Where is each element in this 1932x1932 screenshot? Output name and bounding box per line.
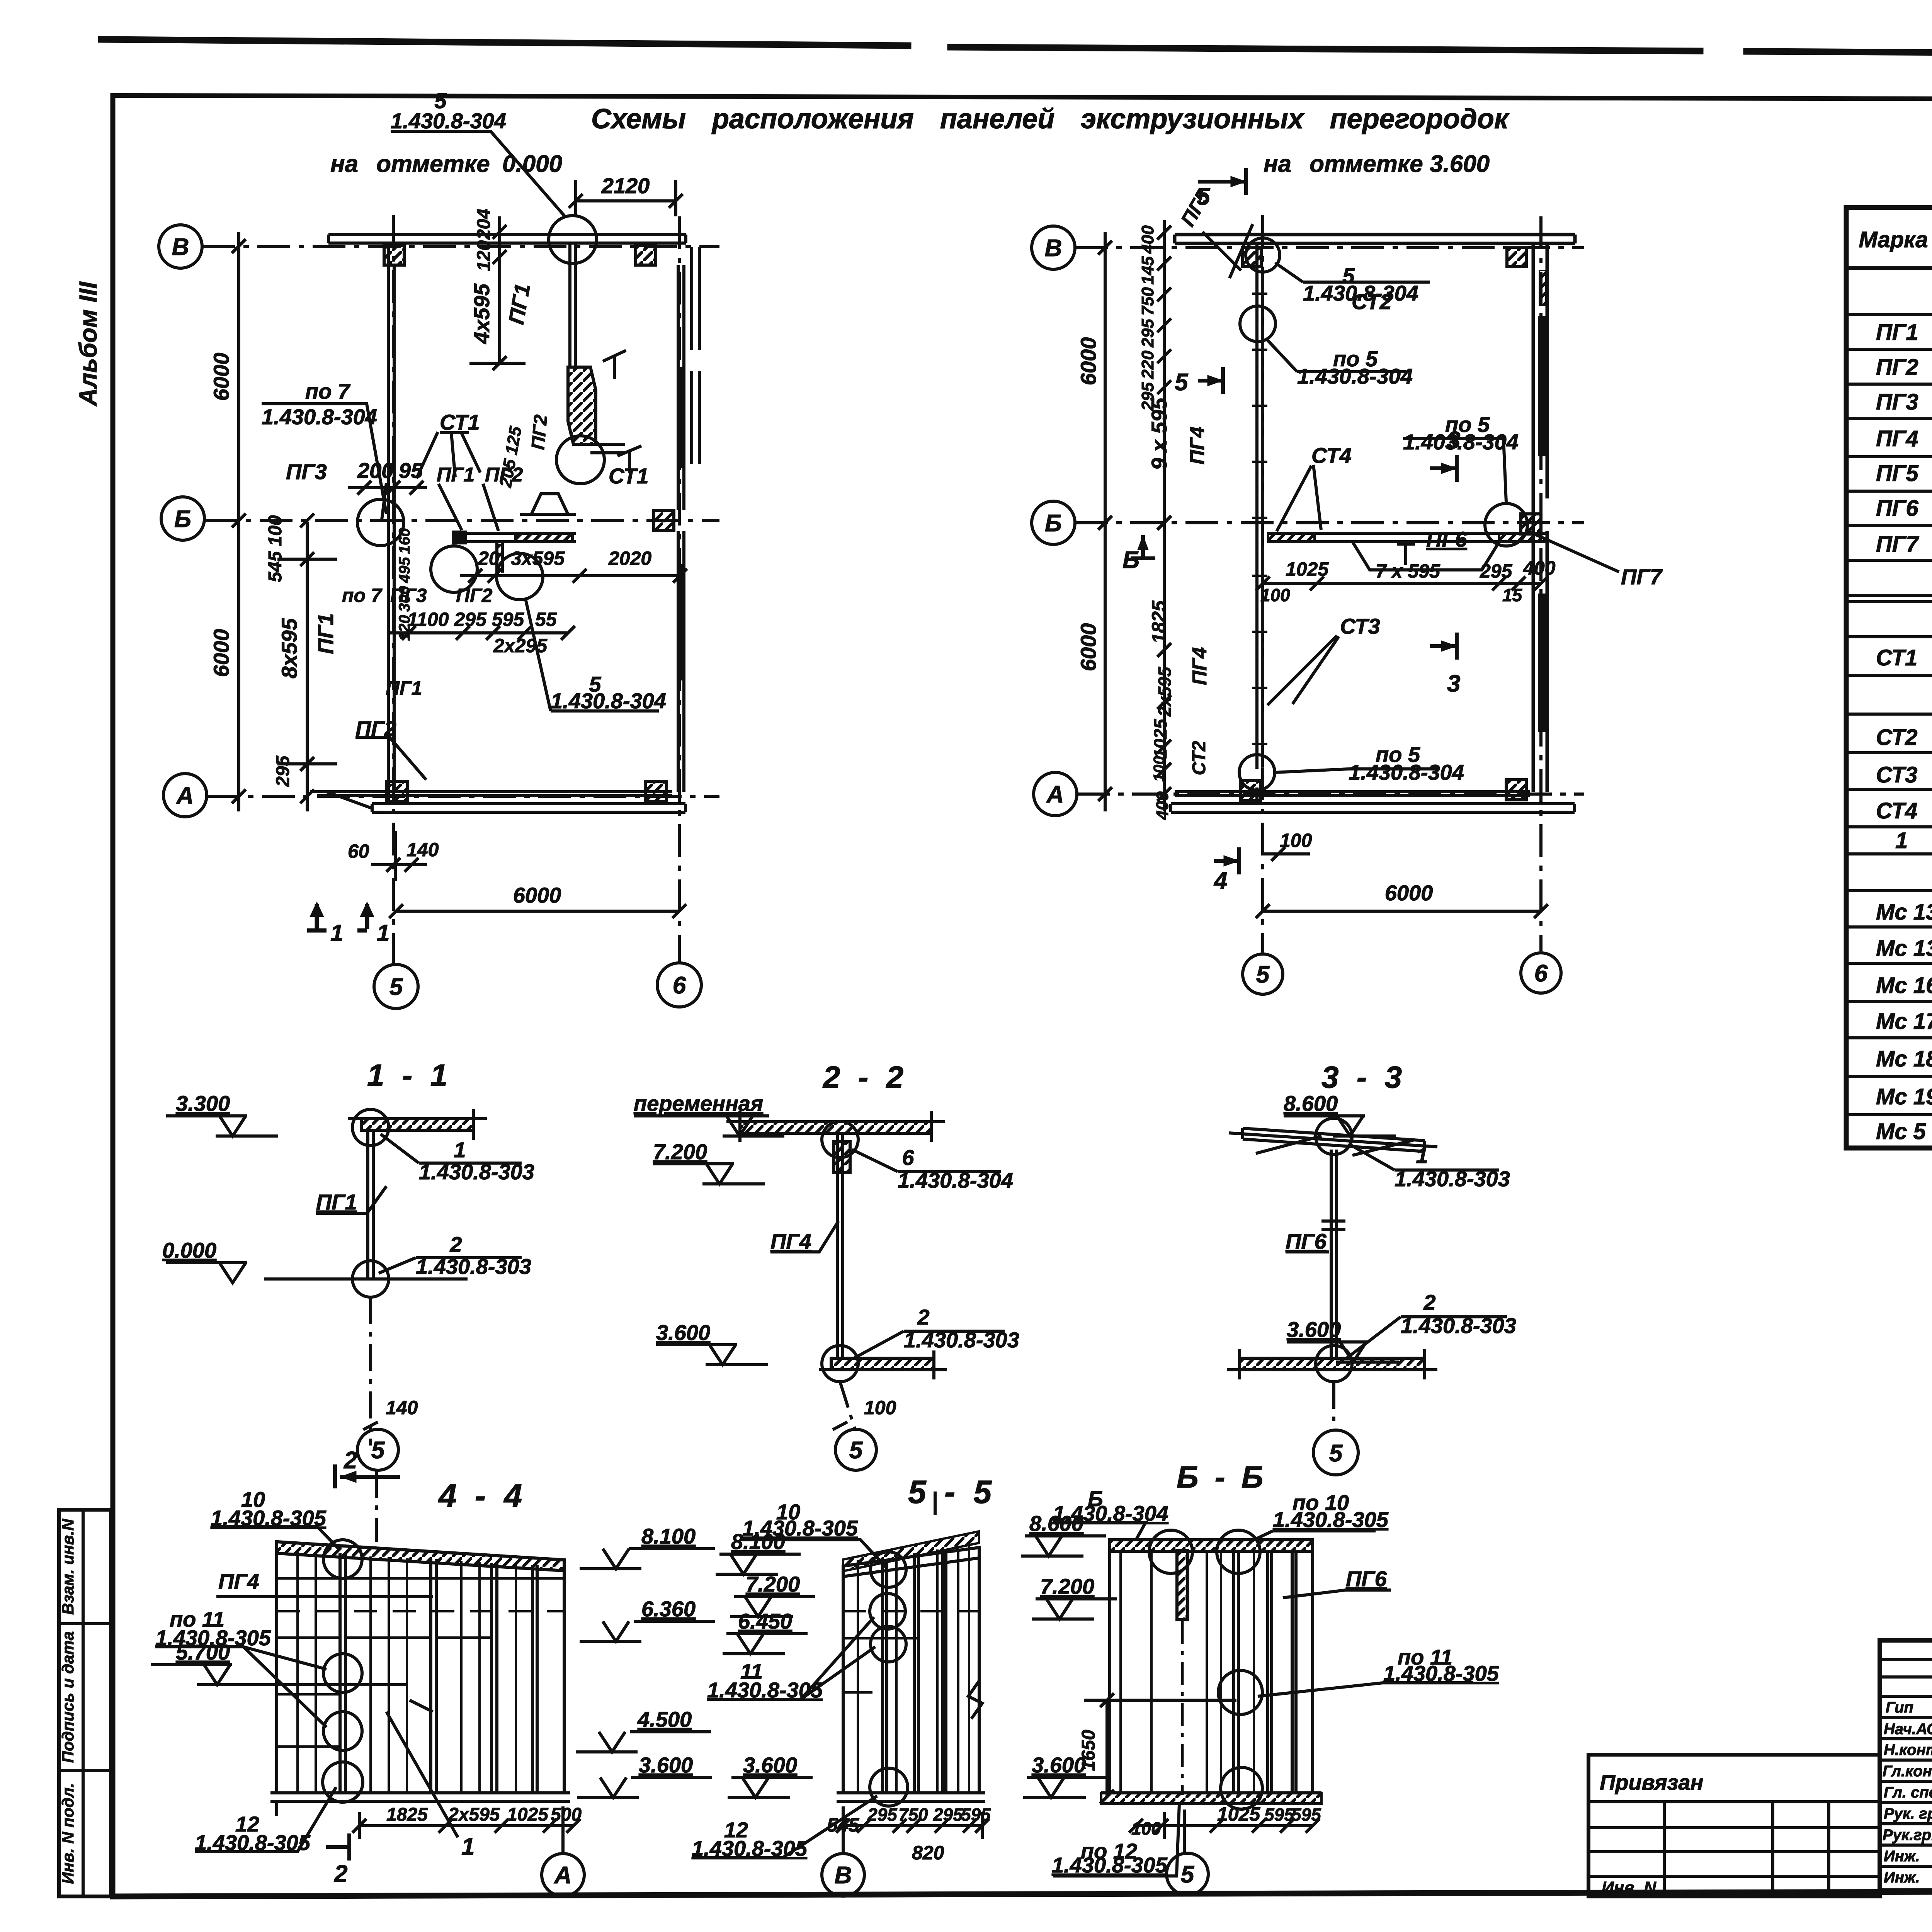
svg-text:1: 1 [461,1833,474,1860]
ST1 trapezoid foot [531,494,568,514]
axis line B [1075,246,1584,249]
plan 1 texts [172,88,686,1000]
svg-text:220: 220 [1138,350,1157,379]
svg-text:1025: 1025 [1150,718,1170,759]
right wall panels along axis 6 [1533,243,1547,792]
leader 5/304 bottom [526,599,659,711]
svg-text:1.430.8-305: 1.430.8-305 [195,1830,311,1855]
svg-text:1.430.8-304: 1.430.8-304 [391,109,506,133]
svg-text:295: 295 [1480,560,1513,582]
svg-text:СТ2: СТ2 [1876,725,1917,750]
break mark right [968,1681,982,1719]
svg-text:6.360: 6.360 [641,1597,696,1621]
column at Bb right + hatch [1521,514,1541,534]
svg-text:А: А [554,1862,572,1889]
dim 100 bottom [1263,847,1310,861]
detail circles plan2 [1246,238,1280,272]
svg-text:3.600: 3.600 [1032,1753,1086,1777]
svg-text:3: 3 [1447,427,1460,454]
column at Bb axis right [654,510,674,531]
svg-text:1025: 1025 [1217,1803,1260,1825]
leaders [852,1150,1001,1172]
svg-text:Нач.АСО: Нач.АСО [1884,1721,1932,1738]
svg-text:Мс 17: Мс 17 [1876,1009,1932,1034]
svg-text:295: 295 [273,755,293,787]
svg-text:1.430.8-303: 1.430.8-303 [904,1328,1019,1352]
svg-text:ПГ1: ПГ1 [313,613,338,654]
svg-text:120: 120 [396,615,413,641]
svg-text:5 - 5: 5 - 5 [908,1474,996,1510]
corner ticks near band [603,350,641,473]
bottom dim 4-4 [352,1812,580,1839]
table body texts [1876,281,1932,1144]
axis circle 5 [1243,954,1283,994]
svg-text:1: 1 [454,1138,466,1162]
stripes [1234,1551,1238,1793]
interior partition PG1 vertical [570,243,575,367]
svg-text:120: 120 [474,240,494,271]
svg-text:В: В [1045,235,1062,262]
svg-text:ПГ4: ПГ4 [1189,647,1211,685]
axis circle 5 [374,964,418,1009]
svg-text:Инв. N: Инв. N [1602,1878,1656,1897]
top beam [361,1119,473,1130]
svg-text:ПГ2: ПГ2 [528,414,551,451]
svg-text:95: 95 [399,458,423,483]
svg-text:8.600: 8.600 [1284,1091,1338,1116]
elev peremennaya [634,1116,784,1136]
base band [270,1793,570,1801]
svg-text:1.430.8-304: 1.430.8-304 [262,405,377,429]
svg-text:Гл. спец.: Гл. спец. [1884,1784,1932,1801]
svg-text:Рук.гр.фр: Рук.гр.фр [1883,1827,1932,1844]
signature table texts [1883,1697,1932,1886]
svg-text:5: 5 [849,1437,863,1464]
left wall panel along axis 5 (9x595) [1257,243,1262,769]
svg-text:400: 400 [1153,791,1172,820]
svg-text:ПГ6: ПГ6 [1426,527,1468,551]
svg-text:100: 100 [1131,1818,1161,1838]
axis 6 vertical [1539,216,1543,951]
axis line B [202,245,719,248]
svg-text:5: 5 [1329,1440,1343,1467]
table header texts [1859,223,1932,265]
svg-text:ПГ6: ПГ6 [1286,1229,1327,1253]
stripes [883,1561,887,1793]
dim line 20/3x595/2020 [460,569,687,583]
svg-text:750: 750 [1138,287,1157,316]
svg-text:1.430.8-303: 1.430.8-303 [419,1160,534,1184]
panel PG4 vertical [837,1133,843,1358]
axis line Bb [1075,521,1584,524]
elev flags left 6-6 [1021,1536,1106,1556]
PG6 trough under Bb [1352,542,1499,570]
elev 7.200 [653,1164,765,1184]
svg-text:295: 295 [933,1804,963,1825]
svg-text:6000: 6000 [513,883,561,907]
bottom section texts [155,1447,1499,1889]
svg-text:Взам. инв.N: Взам. инв.N [59,1518,77,1615]
svg-text:Инв. N подл.: Инв. N подл. [59,1783,77,1884]
elev 3.600 [1287,1342,1399,1362]
leaders [381,1134,522,1163]
axis circle B [159,225,202,268]
elev 8.600 [1284,1116,1396,1136]
svg-text:ПГ7: ПГ7 [1621,565,1663,589]
svg-text:ПГ3: ПГ3 [1876,389,1918,415]
left sidebar boxes [59,1510,111,1896]
svg-text:400: 400 [1138,225,1157,254]
leaders 5-5 [742,1540,886,1567]
axis 6 vertical [678,216,681,963]
4-4 bottom circle A [561,1806,565,1853]
leader po7 top [262,404,386,514]
circles [1218,1670,1262,1714]
svg-text:ПГ2: ПГ2 [1876,355,1918,380]
svg-text:295: 295 [867,1804,898,1825]
svg-text:750: 750 [898,1804,928,1825]
bottom beam [831,1358,934,1370]
svg-text:1825: 1825 [386,1804,428,1825]
svg-text:3: 3 [1447,670,1460,697]
svg-text:ПГ3: ПГ3 [286,459,327,484]
svg-text:545: 545 [827,1814,860,1836]
hatched stanchion [1177,1550,1188,1620]
bottom dim 6-6 [1129,1819,1320,1833]
elev 3.300 [166,1116,278,1136]
svg-text:2х595: 2х595 [1155,667,1175,717]
svg-text:В: В [172,234,189,260]
svg-text:1.430.8-303: 1.430.8-303 [416,1254,531,1279]
svg-text:А: А [1046,781,1064,808]
bottom dim 6000 [1256,904,1548,918]
svg-text:3.600: 3.600 [1287,1317,1341,1342]
svg-text:Рук. гр.: Рук. гр. [1884,1805,1932,1822]
bottom circle V [842,1806,845,1853]
specification table grid [1846,207,1932,1148]
svg-text:ПГ2: ПГ2 [355,716,396,741]
svg-text:4х595: 4х595 [469,283,494,344]
svg-text:Инж.: Инж. [1884,1869,1920,1886]
svg-text:ПГ7: ПГ7 [1876,532,1919,557]
base [837,1793,985,1801]
leader ST1 top [417,432,480,478]
circles [871,1552,906,1587]
svg-text:8.100: 8.100 [731,1529,785,1554]
axis line A [1077,793,1584,796]
panel outline [843,1548,979,1793]
axis line A [207,795,719,798]
top wall [328,235,686,243]
svg-text:2: 2 [344,1447,357,1474]
leaders 6-6 [1053,1522,1146,1540]
4-4 panel outline [277,1542,564,1793]
drawing frame [111,95,116,1896]
svg-text:1025: 1025 [507,1804,549,1825]
svg-text:820: 820 [912,1842,944,1864]
svg-text:СТ2: СТ2 [1189,741,1209,775]
svg-text:ПГ1: ПГ1 [1876,320,1918,345]
svg-text:140: 140 [406,839,439,861]
svg-text:на отметке: на отметке [1264,151,1423,177]
svg-text:5.700: 5.700 [176,1640,230,1664]
top scan bar [101,39,1932,56]
svg-text:Н.контр.: Н.контр. [1884,1742,1932,1759]
svg-text:Б - Б: Б - Б [1177,1460,1267,1494]
svg-text:Б: Б [174,506,191,532]
svg-text:А: А [176,782,194,809]
panel PG6 vertical [1331,1150,1337,1358]
svg-text:0.000: 0.000 [162,1238,216,1262]
svg-text:2: 2 [1423,1290,1435,1315]
left wall panel along axis 5 [388,243,394,804]
svg-text:295: 295 [1138,319,1157,348]
svg-text:ПГ6: ПГ6 [1346,1566,1387,1591]
svg-text:15: 15 [1502,585,1523,605]
dim line at Bb 1025/7x595/295/400 [1256,577,1548,590]
svg-text:переменная: переменная [634,1091,763,1116]
svg-text:Мс 16: Мс 16 [1876,973,1932,998]
4-4 section flag 2 top [335,1464,400,1488]
svg-text:2020: 2020 [608,548,651,569]
svg-text:Марка: Марка [1859,227,1928,252]
svg-text:495: 495 [396,557,413,583]
hatched stub [834,1142,850,1173]
svg-text:7.200: 7.200 [653,1139,707,1164]
leader PG1/PG2 mid [382,483,498,531]
svg-text:100: 100 [1260,585,1290,605]
section marks 1 [307,904,327,930]
svg-text:500: 500 [551,1804,582,1825]
svg-text:Мс 5: Мс 5 [1876,1119,1926,1144]
svg-text:8.600: 8.600 [1029,1511,1083,1536]
top wall right extension panels [692,247,699,464]
elev 3.600 [656,1345,768,1365]
svg-text:160: 160 [396,528,413,554]
bottom dim 6000 [389,904,686,918]
svg-text:Мс 19: Мс 19 [1876,1084,1932,1109]
svg-text:3.600: 3.600 [1430,151,1490,177]
svg-text:ПГ2: ПГ2 [456,585,493,606]
svg-text:300: 300 [396,586,413,612]
svg-text:5: 5 [1181,1861,1195,1888]
svg-text:1.430.8-305: 1.430.8-305 [707,1678,823,1702]
svg-text:1: 1 [1895,828,1908,853]
svg-text:3.600: 3.600 [639,1753,693,1777]
svg-text:ПГ5: ПГ5 [1876,461,1918,486]
axis circle A [1034,772,1077,816]
svg-text:ПГ1: ПГ1 [504,282,535,326]
svg-text:Б: Б [1122,547,1139,573]
axis 5 vertical [1261,215,1264,952]
svg-text:Альбом III: Альбом III [74,281,102,406]
svg-text:1.430.8-305: 1.430.8-305 [1383,1661,1499,1685]
top beam [740,1122,931,1133]
section texts [162,1058,1516,1467]
svg-text:1.430.8-304: 1.430.8-304 [551,689,666,713]
svg-text:СТ3: СТ3 [1340,614,1380,638]
leader PG2 bottom [355,737,426,780]
dim line 200/95 [348,481,427,495]
axis circle 6 [1521,953,1561,993]
base hatched [1101,1793,1321,1804]
svg-text:ПГ6: ПГ6 [1876,496,1918,521]
axis circle Bb [1032,501,1075,544]
svg-text:Привязан: Привязан [1600,1770,1703,1794]
svg-text:ПГ1: ПГ1 [386,677,422,699]
svg-text:6000: 6000 [1076,337,1100,386]
svg-text:145: 145 [1138,256,1157,285]
top wall [1175,235,1575,243]
svg-text:595: 595 [1264,1804,1294,1825]
svg-text:100: 100 [864,1397,896,1418]
bottom wall A [310,792,672,796]
dim 60/140 [371,831,427,881]
svg-text:1: 1 [1416,1143,1428,1168]
svg-text:3.600: 3.600 [743,1753,797,1777]
svg-text:1100 295 595: 1100 295 595 [407,609,524,630]
privyazan box [1588,1755,1880,1896]
dim 8x595 line [277,514,337,811]
svg-text:Гип: Гип [1886,1699,1913,1716]
svg-text:6: 6 [1534,960,1548,987]
svg-text:на отметке: на отметке [330,151,490,177]
svg-text:2х295: 2х295 [493,635,548,656]
svg-text:6: 6 [902,1145,914,1170]
svg-text:5: 5 [1256,961,1270,988]
svg-text:6.450: 6.450 [738,1609,792,1633]
svg-text:204: 204 [474,209,494,240]
svg-text:Мс 18: Мс 18 [1876,1046,1932,1071]
svg-text:6000: 6000 [1076,623,1100,672]
1650 vertical dim [1084,1693,1236,1804]
svg-text:СТ3: СТ3 [1876,762,1917,787]
svg-text:СТ2: СТ2 [1352,289,1392,314]
svg-text:595: 595 [961,1804,991,1825]
svg-text:4: 4 [1213,867,1227,894]
svg-text:1.403.8-304: 1.403.8-304 [1403,430,1519,454]
svg-text:8х595: 8х595 [277,618,301,679]
svg-text:4.500: 4.500 [637,1707,692,1731]
svg-text:140: 140 [386,1397,418,1418]
svg-text:1825: 1825 [1148,600,1170,643]
svg-text:1.430.8-305: 1.430.8-305 [1273,1507,1389,1532]
svg-text:3х595: 3х595 [511,548,565,569]
svg-text:55: 55 [535,609,557,630]
svg-text:Мс 13: Мс 13 [1876,900,1932,925]
inner dim line with small dims [1163,220,1166,811]
svg-text:6000: 6000 [209,353,233,401]
svg-text:Подпись и дата: Подпись и дата [59,1631,77,1763]
svg-text:20: 20 [478,548,500,569]
svg-text:7.200: 7.200 [746,1572,800,1596]
svg-text:6000: 6000 [209,629,233,677]
svg-text:400: 400 [1523,557,1556,579]
axis circle A [163,774,207,817]
bottom beam [1240,1358,1425,1370]
bottom circle 5 [1183,1810,1186,1854]
svg-text:СТ4: СТ4 [1311,443,1352,468]
leaders 4-4 [211,1526,433,1597]
node circle bottom [352,1261,389,1297]
svg-text:1: 1 [330,920,343,946]
leaders plan2 [1275,263,1430,282]
svg-text:ПГ1: ПГ1 [316,1190,357,1214]
column at B axis right [636,246,656,265]
svg-text:2х595: 2х595 [448,1804,500,1825]
svg-text:Инж.: Инж. [1884,1848,1920,1865]
axis circle B [1032,226,1075,269]
columns at A axis [386,781,408,801]
leader 5/304 top [391,131,565,216]
vertical stripes [340,1553,345,1793]
section flag 2 bottom [326,1833,349,1861]
leaders [1349,1144,1499,1170]
dim line mid 1100/295/595 [390,626,575,640]
node circle top [352,1109,389,1146]
svg-text:ПГ1: ПГ1 [437,464,474,486]
columns at A axis [1240,781,1260,801]
svg-text:8.100: 8.100 [641,1524,696,1548]
svg-text:5: 5 [1197,184,1211,210]
svg-text:100: 100 [1151,756,1168,782]
5.700 level [151,1665,232,1685]
svg-text:1.430.8-305: 1.430.8-305 [1052,1853,1168,1877]
svg-text:СТ1: СТ1 [440,410,480,434]
svg-text:ПГ4: ПГ4 [1186,427,1209,464]
column at B axis left [384,246,404,265]
interior horizontal panel at Bb [1268,533,1546,542]
svg-text:5: 5 [371,1437,385,1464]
svg-text:Мс 13: Мс 13 [1876,936,1932,961]
svg-text:Гл.констр: Гл.констр [1883,1763,1932,1780]
svg-text:100: 100 [1280,830,1312,851]
svg-text:5: 5 [389,974,403,1000]
svg-text:2: 2 [449,1232,462,1257]
svg-text:2120: 2120 [601,173,650,198]
axis circle Bb [161,497,204,540]
svg-text:ПГ4: ПГ4 [1876,426,1918,451]
columns at B axis [1243,247,1261,267]
detail circles [549,216,597,264]
svg-text:3.600: 3.600 [656,1320,710,1345]
inner horizontals [277,1577,564,1580]
svg-text:1.430.8-303: 1.430.8-303 [1401,1313,1516,1338]
svg-text:2: 2 [917,1305,929,1329]
svg-text:4 - 4: 4 - 4 [438,1478,527,1514]
panel PG1 vertical [368,1130,373,1279]
elev 0.000 [166,1263,247,1283]
svg-text:ПГ4: ПГ4 [770,1229,811,1253]
svg-text:1 - 1: 1 - 1 [367,1058,452,1092]
svg-text:В: В [835,1862,852,1889]
svg-text:1.430.8-304: 1.430.8-304 [1297,364,1413,388]
section flags [1198,168,1246,195]
small panel ticks on left wall [1252,294,1267,744]
dim line 2120 top [569,180,683,216]
svg-text:1.430.8-305: 1.430.8-305 [692,1836,808,1861]
svg-text:Б: Б [1045,510,1062,537]
svg-text:1025: 1025 [1286,558,1329,580]
elev flags right 4-4 [580,1549,715,1569]
elev flags left 5-5 [716,1554,801,1574]
callout circles [323,1540,362,1578]
svg-text:7.200: 7.200 [1040,1574,1094,1599]
axis 5 vertical [392,215,395,964]
title block grid [1588,1640,1932,1896]
svg-text:6000: 6000 [1385,881,1433,905]
lower stub partition [497,542,502,573]
